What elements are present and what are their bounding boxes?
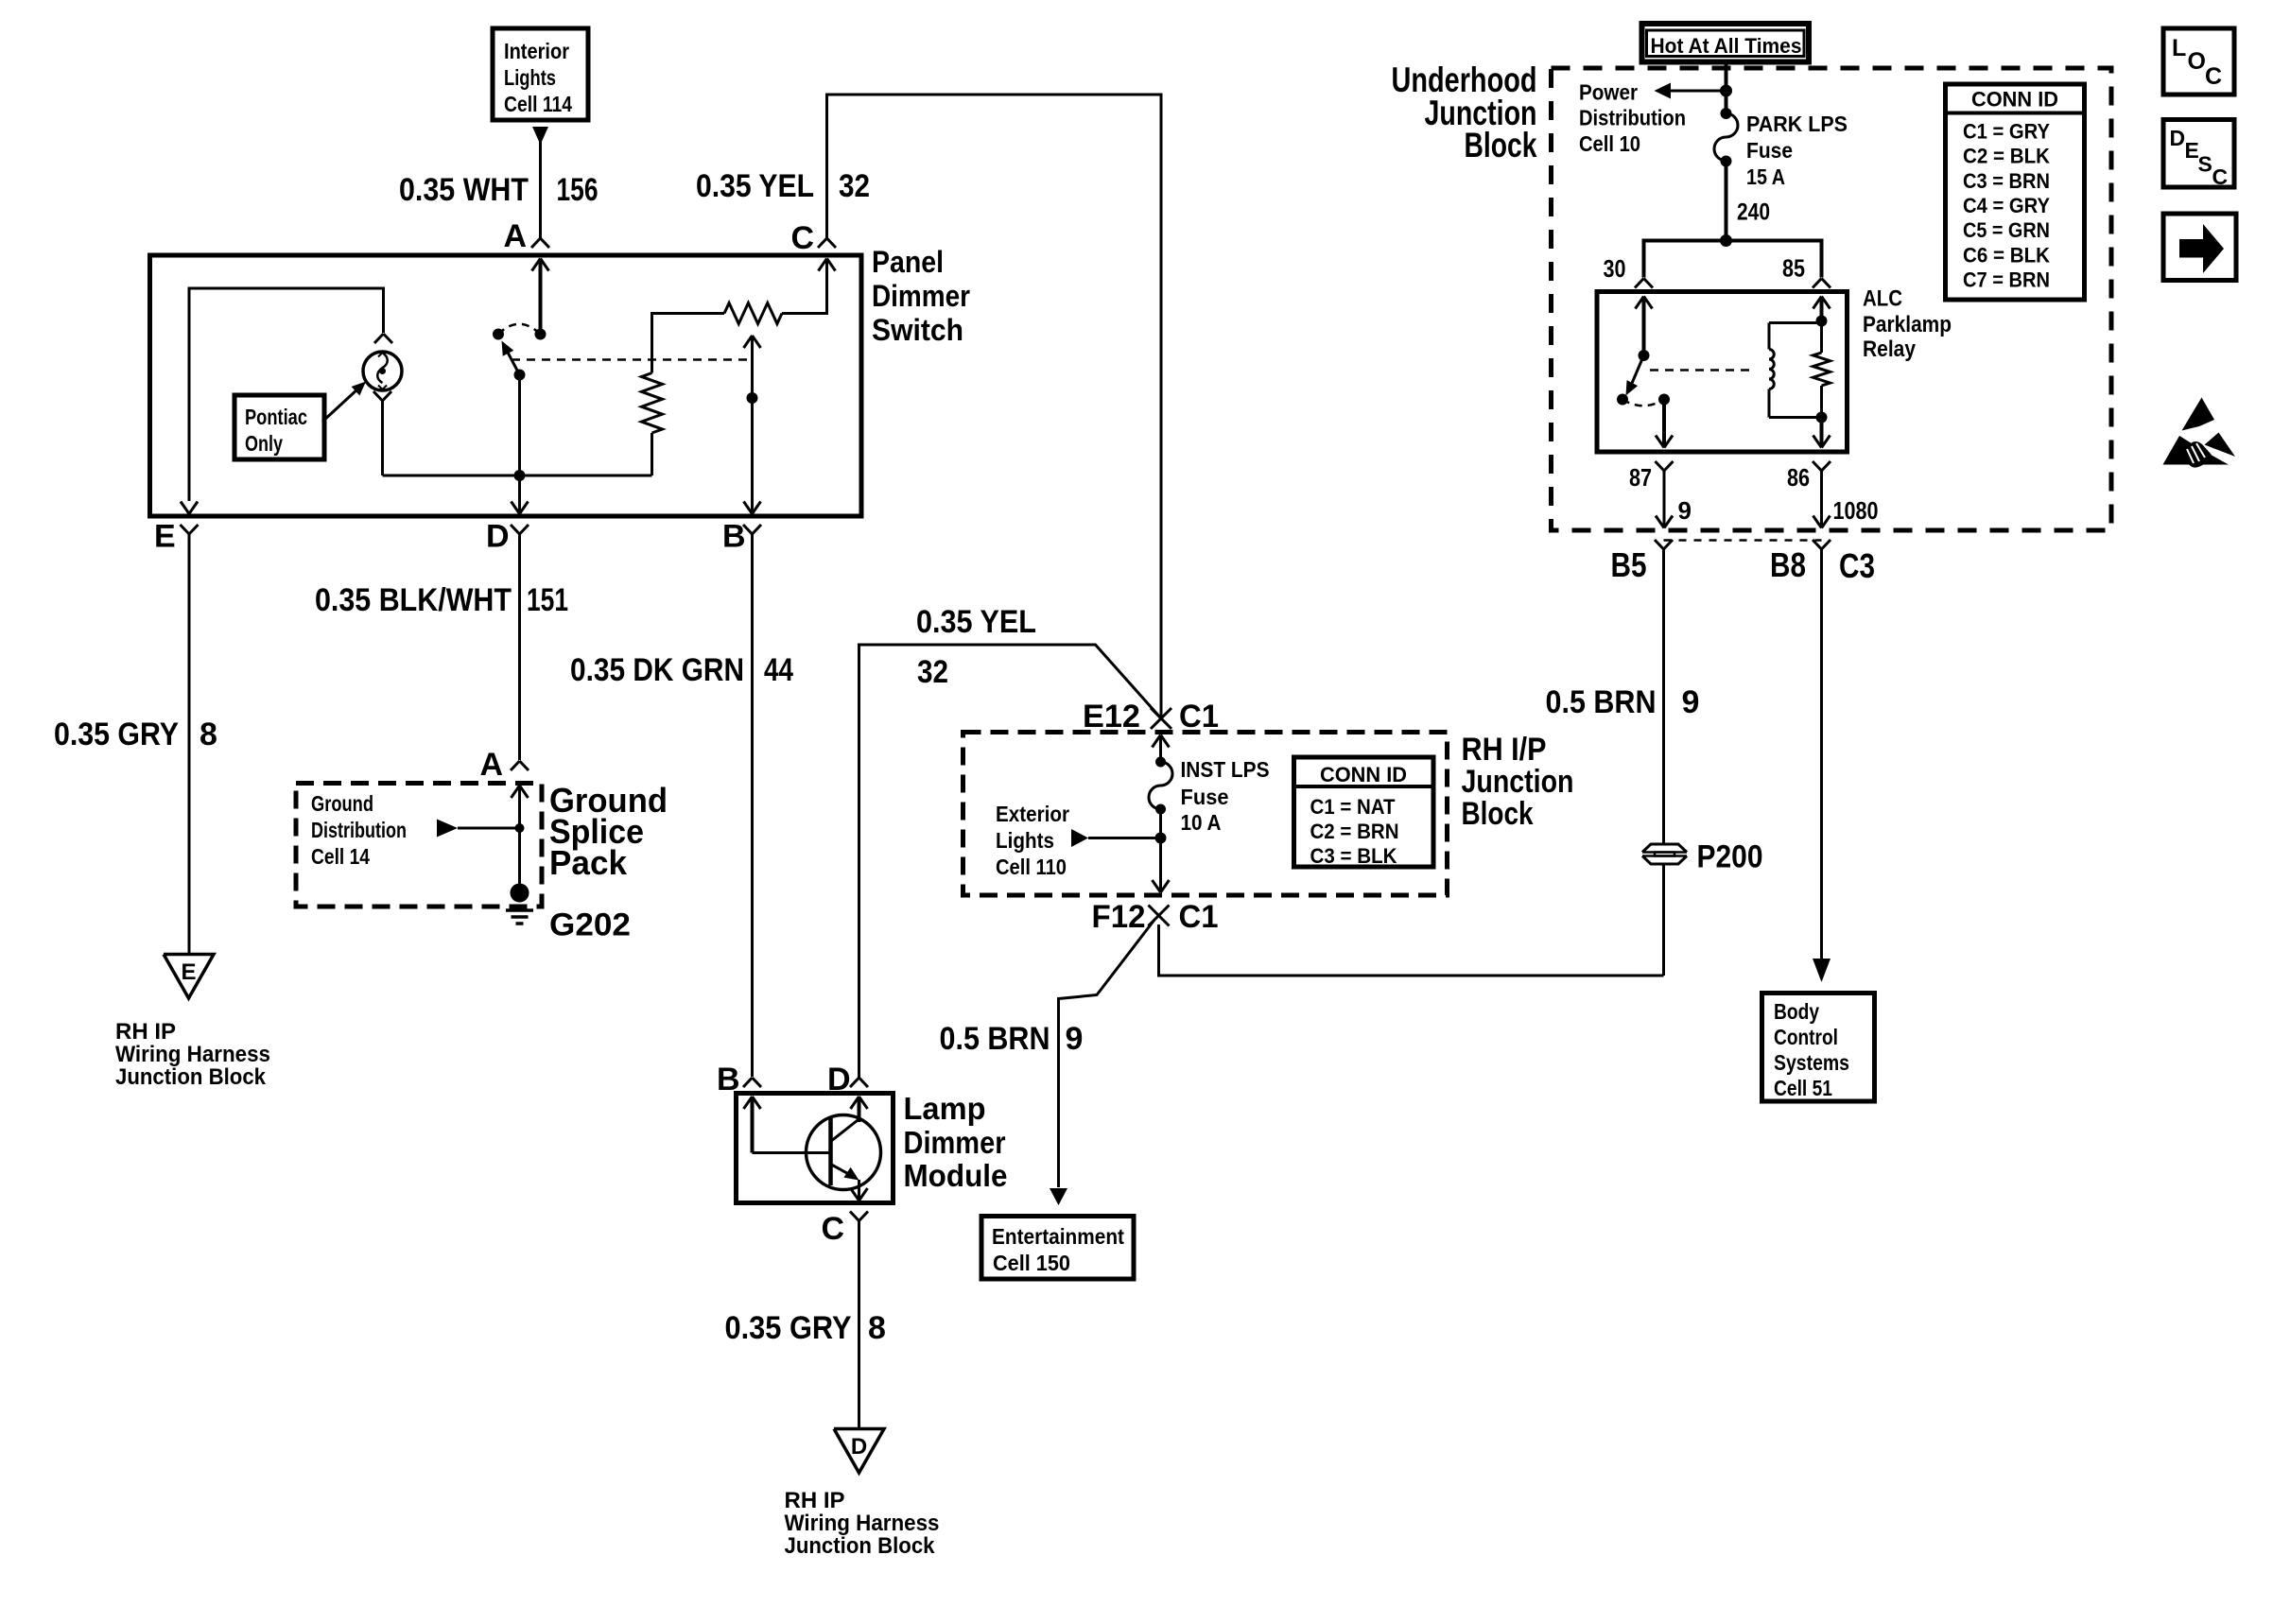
svg-text:CONN ID: CONN ID (1320, 763, 1407, 786)
lamp connector chevron below (373, 391, 383, 401)
svg-text:Junction: Junction (1462, 764, 1574, 800)
label INST LPS Fuse 10 A (1181, 757, 1270, 835)
RH I/P junction block dashed box (963, 733, 1448, 896)
connector chevron at B8 (1813, 540, 1822, 549)
label Underhood Junction Block (1392, 60, 1537, 164)
svg-text:Junction Block: Junction Block (115, 1064, 267, 1090)
svg-text:0.35 YEL: 0.35 YEL (696, 168, 814, 204)
svg-text:B5: B5 (1611, 545, 1647, 584)
svg-text:8: 8 (200, 717, 217, 752)
relay switch blade (1617, 355, 1644, 406)
svg-text:C: C (821, 1211, 844, 1247)
rheostat top lead (652, 314, 725, 373)
svg-text:C: C (2212, 164, 2229, 189)
lamp connector chevron above (374, 334, 384, 343)
relay resistor leads (1816, 316, 1828, 423)
body control systems cell 51 box (1762, 993, 1875, 1102)
LOC reference box (2163, 28, 2234, 95)
svg-text:Lights: Lights (504, 65, 556, 90)
connector chevron under pin D (511, 525, 520, 534)
svg-text:C1: C1 (1179, 699, 1219, 734)
pin B internal down arrow (744, 502, 753, 514)
wire 0.5 BRN 9 from B5 to P200 (1662, 549, 1665, 844)
svg-text:D: D (2170, 126, 2186, 150)
switch contact dot (493, 329, 504, 340)
svg-text:Hot At All Times: Hot At All Times (1651, 34, 1802, 58)
svg-text:15 A: 15 A (1746, 164, 1785, 189)
svg-text:0.35 WHT: 0.35 WHT (399, 172, 529, 208)
svg-text:Switch: Switch (872, 313, 963, 347)
relay pin 87 internal stub (1656, 394, 1673, 448)
wire from F12 to P200 branch (1159, 924, 1664, 976)
svg-text:C2 = BRN: C2 = BRN (1310, 820, 1399, 843)
svg-text:RH IP: RH IP (785, 1488, 845, 1513)
connector chevron at relay pin 30 (1635, 279, 1644, 288)
svg-text:B: B (722, 519, 746, 555)
label PARK LPS Fuse 15 A (1746, 112, 1848, 189)
dashed connector line between B5 and B8 (1664, 539, 1822, 542)
svg-text:8: 8 (868, 1310, 886, 1346)
arrow into body control systems (1813, 959, 1831, 982)
svg-text:Distribution: Distribution (311, 818, 407, 842)
ground distribution cell 14 text (311, 791, 407, 869)
svg-text:Cell 110: Cell 110 (996, 855, 1067, 879)
svg-text:240: 240 (1737, 199, 1770, 226)
svg-text:C1: C1 (1179, 899, 1219, 935)
wire 1080 from B8 to body control systems (1820, 549, 1823, 964)
connector X at E12 (1151, 708, 1171, 729)
svg-text:Cell 150: Cell 150 (993, 1251, 1070, 1275)
svg-text:0.5 BRN: 0.5 BRN (1546, 684, 1657, 720)
svg-text:S: S (2198, 152, 2212, 177)
power distribution cell 10 text (1579, 80, 1686, 157)
wire 0.35 DK GRN 44 from pin B (751, 534, 754, 1077)
svg-text:C3: C3 (1839, 546, 1875, 585)
label RH I/P Junction Block (1462, 732, 1574, 832)
svg-text:Systems: Systems (1774, 1050, 1849, 1075)
panel dimmer switch box (150, 255, 862, 516)
svg-text:Cell 10: Cell 10 (1579, 131, 1640, 156)
svg-text:A: A (479, 747, 503, 783)
svg-text:85: 85 (1782, 254, 1805, 283)
connector chevron under pin B (743, 525, 753, 534)
svg-text:Lights: Lights (996, 828, 1054, 853)
svg-text:Dimmer: Dimmer (872, 279, 970, 313)
svg-text:CONN ID: CONN ID (1971, 88, 2058, 112)
svg-text:Fuse: Fuse (1746, 138, 1793, 163)
label ALC Parklamp Relay (1863, 286, 1952, 363)
svg-text:32: 32 (839, 168, 870, 204)
switch travel dashed arc (498, 324, 541, 335)
wire from switch blade down to junction (518, 375, 521, 476)
svg-text:Relay: Relay (1863, 337, 1917, 362)
svg-text:C7 = BRN: C7 = BRN (1963, 268, 2050, 291)
underhood junction block dashed box (1552, 68, 2112, 530)
wire 0.35 BLK/WHT 151 from pin D (518, 534, 521, 760)
svg-text:Interior: Interior (504, 39, 569, 63)
pontiac only box (234, 395, 324, 459)
svg-text:Exterior: Exterior (996, 802, 1069, 826)
relay dashed actuation line (1650, 369, 1754, 371)
svg-text:P200: P200 (1697, 839, 1763, 875)
lamp dimmer module box (737, 1094, 894, 1203)
svg-text:INST LPS: INST LPS (1181, 757, 1270, 782)
svg-text:Wiring Harness: Wiring Harness (115, 1042, 270, 1067)
dashed coupling line in panel switch (512, 358, 753, 361)
connector chevron at B5 (1655, 540, 1664, 549)
svg-text:32: 32 (917, 654, 948, 690)
svg-text:0.35 GRY: 0.35 GRY (725, 1310, 852, 1346)
svg-text:G202: G202 (549, 907, 631, 943)
relay coil K1 (1769, 323, 1822, 418)
entertainment cell 150 box (981, 1217, 1134, 1280)
svg-text:Ground: Ground (311, 791, 373, 816)
svg-text:Cell 51: Cell 51 (1774, 1076, 1832, 1100)
connector chevron at splice pin A (511, 761, 520, 770)
svg-text:RH I/P: RH I/P (1462, 732, 1547, 768)
svg-text:PARK LPS: PARK LPS (1746, 112, 1848, 136)
svg-text:Distribution: Distribution (1579, 106, 1686, 130)
ground symbol G202 (506, 910, 533, 924)
svg-text:C1 = GRY: C1 = GRY (1963, 120, 2050, 144)
svg-text:A: A (503, 218, 527, 254)
svg-text:Control: Control (1774, 1025, 1838, 1049)
transistor Q1 (807, 1115, 881, 1190)
svg-text:Pack: Pack (549, 843, 628, 882)
connector chevron at relay pin 85 (1813, 279, 1822, 288)
svg-text:Wiring Harness: Wiring Harness (785, 1511, 940, 1536)
svg-text:RH IP: RH IP (115, 1019, 176, 1045)
CONN ID table (underhood) (1946, 84, 2085, 300)
svg-text:Module: Module (904, 1158, 1008, 1193)
arrow into entertainment (1050, 1188, 1067, 1205)
wire from hot at all times (1720, 62, 1732, 114)
wire from lamp down to bottom rail (381, 401, 384, 475)
svg-text:151: 151 (527, 582, 568, 618)
ground splice pack dashed box (296, 784, 542, 907)
svg-text:E: E (181, 959, 196, 985)
svg-text:C: C (2205, 63, 2222, 90)
svg-text:30: 30 (1604, 254, 1626, 283)
wire 9 from relay pin 87 (1656, 471, 1673, 528)
svg-text:0.35 BLK/WHT: 0.35 BLK/WHT (315, 582, 512, 618)
pin B internal wire with up arrow and tap dot (744, 336, 761, 514)
connector chevron at module pin D (850, 1078, 859, 1087)
label RH IP Wiring Harness Junction Block (module) (785, 1488, 940, 1559)
ESD sensitive device symbol (2163, 398, 2236, 468)
svg-text:Cell 114: Cell 114 (504, 92, 572, 116)
svg-text:C2 = BLK: C2 = BLK (1963, 145, 2050, 168)
label RH IP Wiring Harness Junction Block (left) (115, 1019, 270, 1090)
resistor R1 horizontal (724, 303, 782, 324)
power distribution arrow (1655, 83, 1726, 99)
wire 0.35 WHT 156 from interior lights to panel dimmer switch pin A (532, 127, 548, 238)
svg-text:44: 44 (764, 652, 793, 688)
svg-text:C3 = BLK: C3 = BLK (1310, 844, 1397, 868)
label Panel Dimmer Switch (872, 245, 970, 347)
svg-text:Block: Block (1465, 126, 1537, 164)
svg-text:C3 = BRN: C3 = BRN (1963, 169, 2050, 193)
svg-text:E12: E12 (1083, 699, 1140, 734)
svg-text:0.35 GRY: 0.35 GRY (54, 717, 179, 752)
module pin D internal arrow (collector) (851, 1097, 868, 1122)
ground distribution arrow (437, 820, 525, 838)
pin D internal wire with down arrow (512, 475, 529, 514)
splice ball G202 (511, 884, 529, 903)
connector chevron under module pin C (850, 1212, 859, 1221)
svg-text:Cell 14: Cell 14 (311, 844, 370, 869)
wire 1080 from relay pin 86 (1813, 471, 1831, 528)
module pin B internal arrow and base lead (744, 1097, 831, 1153)
svg-text:Lamp: Lamp (904, 1091, 986, 1126)
relay pin 85 internal stub (1813, 297, 1831, 321)
triangle connector D (834, 1429, 884, 1474)
switch blade with arrow (502, 341, 526, 381)
relay blade travel dashed arc (1622, 400, 1664, 406)
svg-text:0.35 YEL: 0.35 YEL (916, 604, 1036, 640)
pin A internal stub with up arrow (532, 259, 549, 335)
svg-text:C6 = BLK: C6 = BLK (1963, 243, 2050, 267)
svg-text:ALC: ALC (1863, 286, 1902, 312)
pin E branch wire (189, 288, 384, 501)
switch common dot (535, 329, 547, 340)
svg-text:9: 9 (1066, 1021, 1084, 1057)
DESC reference box (2163, 120, 2234, 190)
connector chevron under relay pin 86 (1813, 461, 1822, 471)
svg-text:B8: B8 (1770, 545, 1806, 584)
svg-text:D: D (851, 1434, 867, 1460)
relay pin 86 internal stub (1813, 418, 1831, 448)
exterior lights arrow (1071, 829, 1167, 847)
svg-text:C1 = NAT: C1 = NAT (1310, 795, 1397, 819)
svg-text:0.35 DK GRN: 0.35 DK GRN (570, 652, 744, 688)
svg-text:Panel: Panel (872, 245, 944, 279)
svg-text:1080: 1080 (1833, 496, 1879, 525)
module pin C internal wire with down arrow (emitter) (851, 1180, 868, 1201)
pin C internal up arrow (819, 259, 827, 271)
svg-text:E: E (154, 519, 176, 555)
panel bottom internal rail with junction dot (383, 470, 652, 481)
wire 0.35 GRY 8 from module pin C (858, 1221, 860, 1428)
wire 0.35 YEL 32 from module pin D to E12 (859, 645, 1162, 1078)
svg-text:O: O (2188, 48, 2206, 75)
triangle connector E (164, 955, 214, 999)
hot at all times box (1642, 24, 1810, 62)
svg-text:Pontiac: Pontiac (245, 405, 307, 429)
wire from R1 to pin C arrow (782, 259, 827, 314)
ALC parklamp relay box (1597, 292, 1848, 453)
forward arrow box (2163, 214, 2236, 281)
svg-text:C5 = GRN: C5 = GRN (1963, 218, 2050, 242)
svg-text:87: 87 (1629, 463, 1652, 492)
svg-text:F12: F12 (1092, 899, 1146, 935)
label Lamp Dimmer Module (904, 1091, 1008, 1193)
svg-text:9: 9 (1678, 496, 1692, 525)
svg-text:9: 9 (1682, 684, 1700, 720)
svg-text:Parklamp: Parklamp (1863, 312, 1952, 337)
CONN ID table (RH I/P) (1294, 757, 1434, 868)
relay resistor R3 (1813, 353, 1831, 386)
svg-text:Junction Block: Junction Block (785, 1533, 936, 1559)
R2 bottom lead (651, 433, 653, 475)
svg-text:Entertainment: Entertainment (992, 1224, 1124, 1249)
illumination lamp (Pontiac only) (363, 352, 402, 390)
bus bar from fuse to relay pins (1644, 234, 1822, 278)
svg-text:0.5 BRN: 0.5 BRN (940, 1021, 1050, 1057)
connector X at F12 (1149, 906, 1170, 926)
svg-text:Power: Power (1579, 80, 1638, 105)
pin E internal down arrow (181, 502, 189, 514)
connector chevron under pin E (181, 525, 190, 534)
splice internal up arrow and wire (512, 786, 529, 893)
svg-text:L: L (2172, 35, 2186, 61)
wire 0.35 GRY 8 from pin E (188, 534, 191, 953)
svg-text:D: D (486, 519, 510, 555)
wire 0.35 YEL 32 from pin C to E12 (827, 95, 1162, 718)
label Ground Splice Pack (549, 781, 668, 882)
connector chevron at module pin B (743, 1078, 753, 1087)
svg-text:Only: Only (245, 431, 283, 456)
svg-text:10 A: 10 A (1181, 810, 1222, 835)
exterior lights cell 110 text (996, 802, 1069, 879)
resistor R2 vertical (642, 373, 663, 434)
svg-text:Fuse: Fuse (1181, 785, 1229, 809)
svg-text:C: C (790, 220, 814, 256)
svg-text:86: 86 (1787, 463, 1810, 492)
wire 0.5 BRN 9 from F12 to entertainment (1059, 920, 1155, 1187)
svg-text:156: 156 (557, 172, 599, 208)
connector chevron at pin C (818, 238, 827, 248)
PARK LPS fuse F2 (1714, 108, 1738, 241)
INST LPS fuse F1 (1149, 735, 1172, 893)
svg-text:C4 = GRY: C4 = GRY (1963, 194, 2050, 217)
inline connector P200 (1642, 844, 1687, 976)
connector chevron under relay pin 87 (1656, 461, 1665, 471)
svg-text:Dimmer: Dimmer (904, 1125, 1006, 1160)
pontiac only pointer arrow (322, 382, 366, 423)
connector chevron at pin A (531, 238, 541, 248)
svg-text:Body: Body (1774, 999, 1819, 1024)
svg-text:Block: Block (1462, 796, 1534, 832)
interior lights cell 114 box (493, 28, 588, 120)
relay pin 30 internal stub (1636, 297, 1653, 362)
